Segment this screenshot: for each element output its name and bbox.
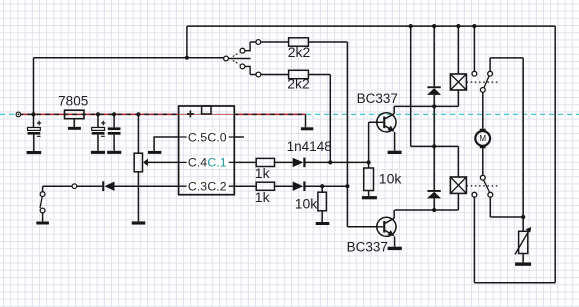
wire pin C.0 stub [234, 136, 244, 138]
ground (Q2 emitter) [388, 247, 402, 250]
wire VR1 top lead [137, 114, 139, 153]
wire R2 output drop [308, 75, 330, 163]
wire Q1 base riser [369, 122, 377, 162]
wire R5 leads [368, 162, 370, 196]
svg-text:1k: 1k [255, 189, 271, 205]
svg-text:BC337: BC337 [357, 91, 398, 106]
wire SW3 throw to right column [490, 58, 523, 231]
junction R2/D2 row [328, 160, 332, 164]
ground (C4) [107, 151, 121, 154]
wire R3 to D2 [275, 161, 293, 163]
ground (rail end) [301, 127, 313, 130]
motor M1 [475, 129, 490, 149]
junction D4/RL1 node [432, 104, 436, 108]
svg-text:C.2: C.2 [207, 180, 226, 194]
diode D2 1n4148 [293, 158, 306, 168]
ground (Q1 emitter) [388, 151, 402, 154]
wire y58 to switch pole [187, 57, 224, 59]
switch S1 SPDT (top middle) [224, 40, 289, 77]
wire R6 leads [321, 186, 323, 222]
transistor Q1 BC337 [377, 113, 396, 132]
svg-text:1k: 1k [255, 165, 271, 181]
wire relay2 coil bottom lead [457, 193, 459, 210]
junction VR1/rail [136, 112, 140, 116]
resistor R1 2k2 [289, 38, 309, 46]
resistor R4 1k [256, 182, 274, 190]
svg-text:2k2: 2k2 [287, 76, 310, 92]
node +5V rail (red highlighted net) [18, 113, 305, 115]
transistor Q2 BC337 [377, 217, 396, 236]
relay RL2 coil [450, 177, 466, 193]
wire R4 to D3 [275, 185, 293, 187]
ground (S2) [36, 222, 49, 225]
ground (R5) [362, 196, 377, 199]
wire Q2 emitter to ground [394, 237, 396, 247]
wire pin C.3 row to switch S2 [43, 185, 179, 187]
ground (pin C.5) [148, 151, 161, 154]
relay RL2 linkage (dotted) [466, 185, 499, 187]
ground (C1) [27, 151, 42, 154]
svg-text:C.3: C.3 [188, 180, 207, 194]
wire 7805 ground lead [73, 119, 75, 127]
wire C3 leads [113, 114, 115, 150]
junction D4-D5/RL2 feed [432, 144, 436, 148]
capacitor C1 electrolytic [28, 121, 42, 137]
junction SW4/VR2 [521, 215, 525, 219]
wire VR1 bottom lead to ground [137, 172, 139, 222]
resistor R3 1k [256, 158, 274, 166]
ground (C2) [91, 151, 105, 154]
junction C1/rail [31, 112, 35, 116]
svg-text:C.5: C.5 [188, 130, 207, 144]
wire VR2 bottom lead [522, 254, 524, 263]
junction C4/rail [112, 112, 116, 116]
wire switch SW3 feed from top rail [473, 26, 475, 71]
junction C2/rail [96, 112, 100, 116]
diode D4 flyback [427, 86, 441, 95]
svg-text:1n4148: 1n4148 [287, 139, 332, 154]
resistor R2 2k2 [289, 70, 309, 78]
wire Q1 collector to relay node [394, 106, 458, 113]
diode D5 flyback [427, 190, 441, 198]
svg-text:C.4: C.4 [188, 156, 207, 170]
wire flyback diode column [433, 26, 435, 210]
wire right edge vertical [554, 26, 556, 283]
wire R1 output to lower base column [308, 42, 377, 227]
capacitor C4 [108, 127, 121, 134]
wire D2 to Q1 base node [305, 161, 369, 163]
terminal input node [16, 112, 21, 117]
junction Q1 base node [367, 160, 371, 164]
svg-text:C.0: C.0 [207, 130, 226, 144]
relay RL1 linkage (dotted) [466, 81, 498, 83]
wire vertical link top rail to y58 rail [186, 26, 188, 58]
wire SW3 to motor top [482, 92, 484, 128]
wire pin C.5 to ground [154, 137, 179, 151]
junction y58 tee [185, 56, 189, 60]
wire switch2 left contact down [473, 197, 475, 283]
junction R6 top [320, 184, 324, 188]
relay RL1 coil [450, 74, 466, 90]
relay RL1 contacts SW3 [472, 71, 493, 92]
diode D1 (pointing left) [102, 181, 114, 191]
svg-text:10k: 10k [295, 195, 319, 211]
resistor R6 10k [318, 192, 327, 211]
wire SW4 throw to VR2 node [490, 197, 523, 217]
junction top rail C [456, 24, 460, 28]
node terminal on C.3 wire [72, 184, 77, 189]
junction D5/Q2 collector [432, 208, 436, 212]
wire pin C.1 to R3 [234, 161, 256, 163]
potentiometer VR1 [134, 153, 148, 172]
capacitor C2 electrolytic [92, 121, 106, 137]
wire C2 leads [97, 114, 99, 150]
wire top-left vertical from y58 rail down through +5V rail to C1 [33, 58, 35, 128]
wire Q1 emitter to ground [394, 132, 396, 151]
wire y58 horizontal left segment [34, 57, 187, 59]
relay RL2 contacts SW4 [472, 175, 493, 197]
svg-text:M: M [479, 134, 486, 143]
wire Q2 collector row [394, 210, 458, 218]
wire switch S2 drop [42, 186, 44, 221]
junction top rail D [472, 24, 476, 28]
ground (R6) [316, 222, 330, 225]
potentiometer VR2 [515, 227, 531, 254]
ground (7805) [68, 127, 81, 130]
svg-text:C.1: C.1 [207, 156, 226, 170]
svg-text:10k: 10k [379, 170, 403, 186]
diode D3 1n4148 [293, 181, 306, 191]
wire bottom return [474, 282, 555, 284]
ground (VR2) [515, 262, 531, 265]
wire rail end drop [305, 114, 307, 127]
regulator U2 7805 [65, 110, 85, 119]
junction top rail A [409, 24, 413, 28]
wire motor bottom to SW4 [482, 148, 484, 175]
IC U1 box [179, 106, 235, 195]
wire pin C.4 to VR1 wiper [148, 161, 179, 163]
svg-text:7805: 7805 [58, 93, 88, 108]
wire relay1 coil leads [457, 26, 459, 106]
wire C1 lower lead [33, 135, 35, 151]
IC U1 pin labels [188, 130, 227, 193]
junction R1/C.2 row [345, 184, 349, 188]
switch S2 push (bottom left) [40, 192, 45, 213]
svg-text:BC337: BC337 [347, 239, 388, 254]
guide line (cyan dashed centre line) [0, 113, 579, 115]
resistor R5 10k [364, 168, 374, 191]
wire pin C.2 to R4 [234, 185, 256, 187]
svg-text:2k2: 2k2 [288, 44, 311, 60]
wire D3 to node [305, 185, 347, 187]
wire top rail to relay2 feed [411, 26, 459, 177]
ground (VR1) [132, 221, 146, 224]
wire top rail [187, 25, 555, 27]
junction top rail B [432, 24, 436, 28]
